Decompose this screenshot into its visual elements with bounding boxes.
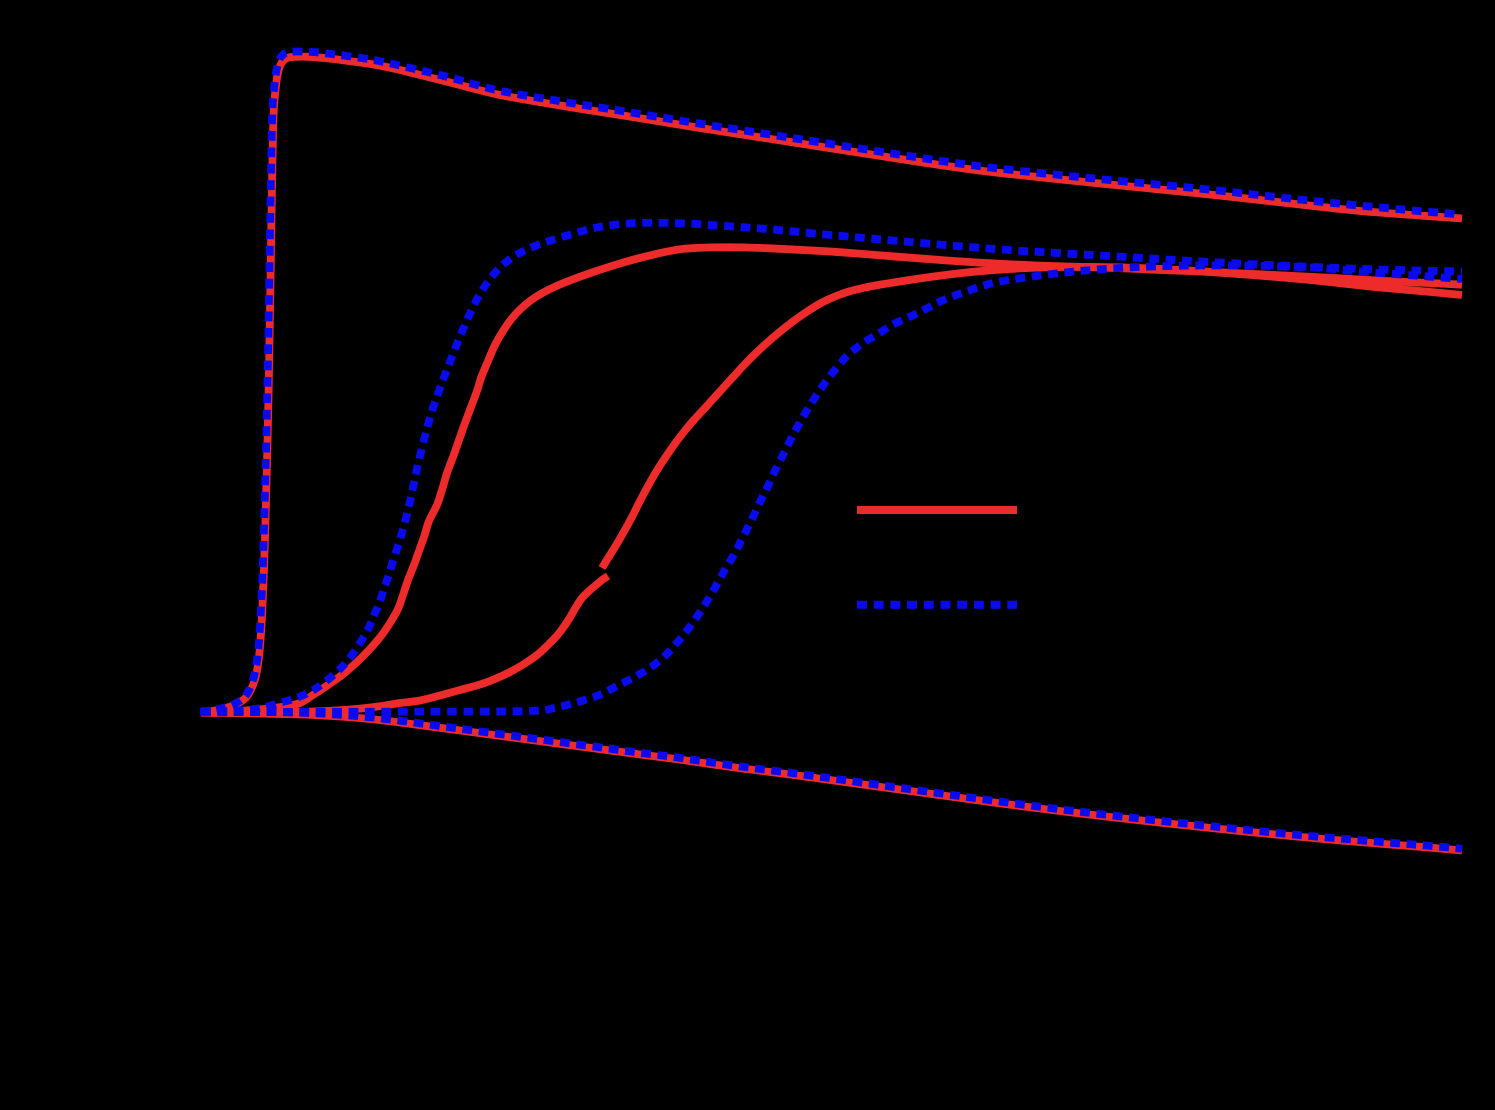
legend blue dotted sample line: [857, 601, 1017, 609]
curve red solid series 4 (peak-decay curve): [201, 57, 1462, 713]
curve red solid series 2 (late sigmoid, lower segment): [201, 576, 608, 713]
legend red solid sample line: [857, 506, 1017, 514]
curve red solid series 2 (late sigmoid, upper segment): [602, 267, 1462, 568]
curve blue dotted series 1 (bottom decaying pair): [201, 711, 1462, 849]
curve blue dotted series 3 (early sigmoid): [201, 223, 1462, 713]
curve blue dotted series 2 (late sigmoid): [201, 265, 1462, 712]
curve red solid series 1 (bottom decaying pair): [201, 713, 1462, 851]
curve blue dotted series 4 (peak-decay curve): [200, 51, 1461, 712]
curve red solid series 3 (early sigmoid): [201, 247, 1462, 713]
